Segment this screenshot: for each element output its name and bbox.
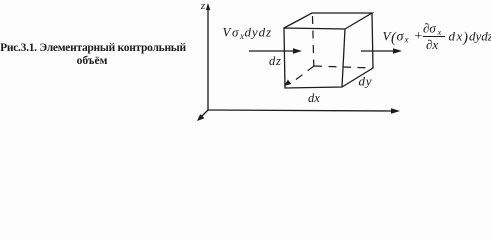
cube hidden edge back-left vertical (dashed) [313, 16, 314, 66]
cube hidden depth edge with arrow to front-bottom-left (dashed) [292, 66, 314, 83]
svg-text:dx: dx [308, 91, 320, 105]
svg-text:объём: объём [77, 55, 108, 67]
svg-text:x: x [437, 27, 442, 37]
y axis stub toward viewer [200, 110, 208, 118]
right face flux label V(sigma_x + dsigma_x/dx dx)dydz [383, 21, 491, 53]
svg-text:+: + [415, 28, 423, 43]
svg-text:∂x: ∂x [426, 37, 438, 52]
svg-text:∂σ: ∂σ [423, 21, 436, 36]
x axis [208, 110, 395, 111]
svg-text:σ: σ [397, 30, 405, 45]
z axis [207, 7, 209, 110]
svg-text:V: V [223, 25, 233, 40]
svg-text:dy: dy [359, 74, 373, 89]
svg-text:dz: dz [269, 54, 282, 68]
cube hidden edge back-bottom (dashed) [314, 66, 373, 68]
svg-text:dydz: dydz [469, 29, 491, 44]
right stress arrow [361, 50, 397, 52]
svg-text:dx: dx [449, 29, 464, 44]
cube solid edges [284, 13, 373, 88]
left face flux label V sigma_x dydz [223, 25, 272, 42]
left stress arrow [249, 50, 296, 52]
svg-text:): ) [462, 30, 468, 46]
svg-text:Рис.3.1. Элементарный контроль: Рис.3.1. Элементарный контрольный [0, 42, 186, 54]
svg-text:σ: σ [232, 25, 239, 40]
svg-text:x: x [239, 31, 244, 41]
svg-text:dydz: dydz [245, 25, 272, 40]
svg-text:x: x [404, 35, 409, 45]
svg-text:z: z [200, 0, 206, 12]
